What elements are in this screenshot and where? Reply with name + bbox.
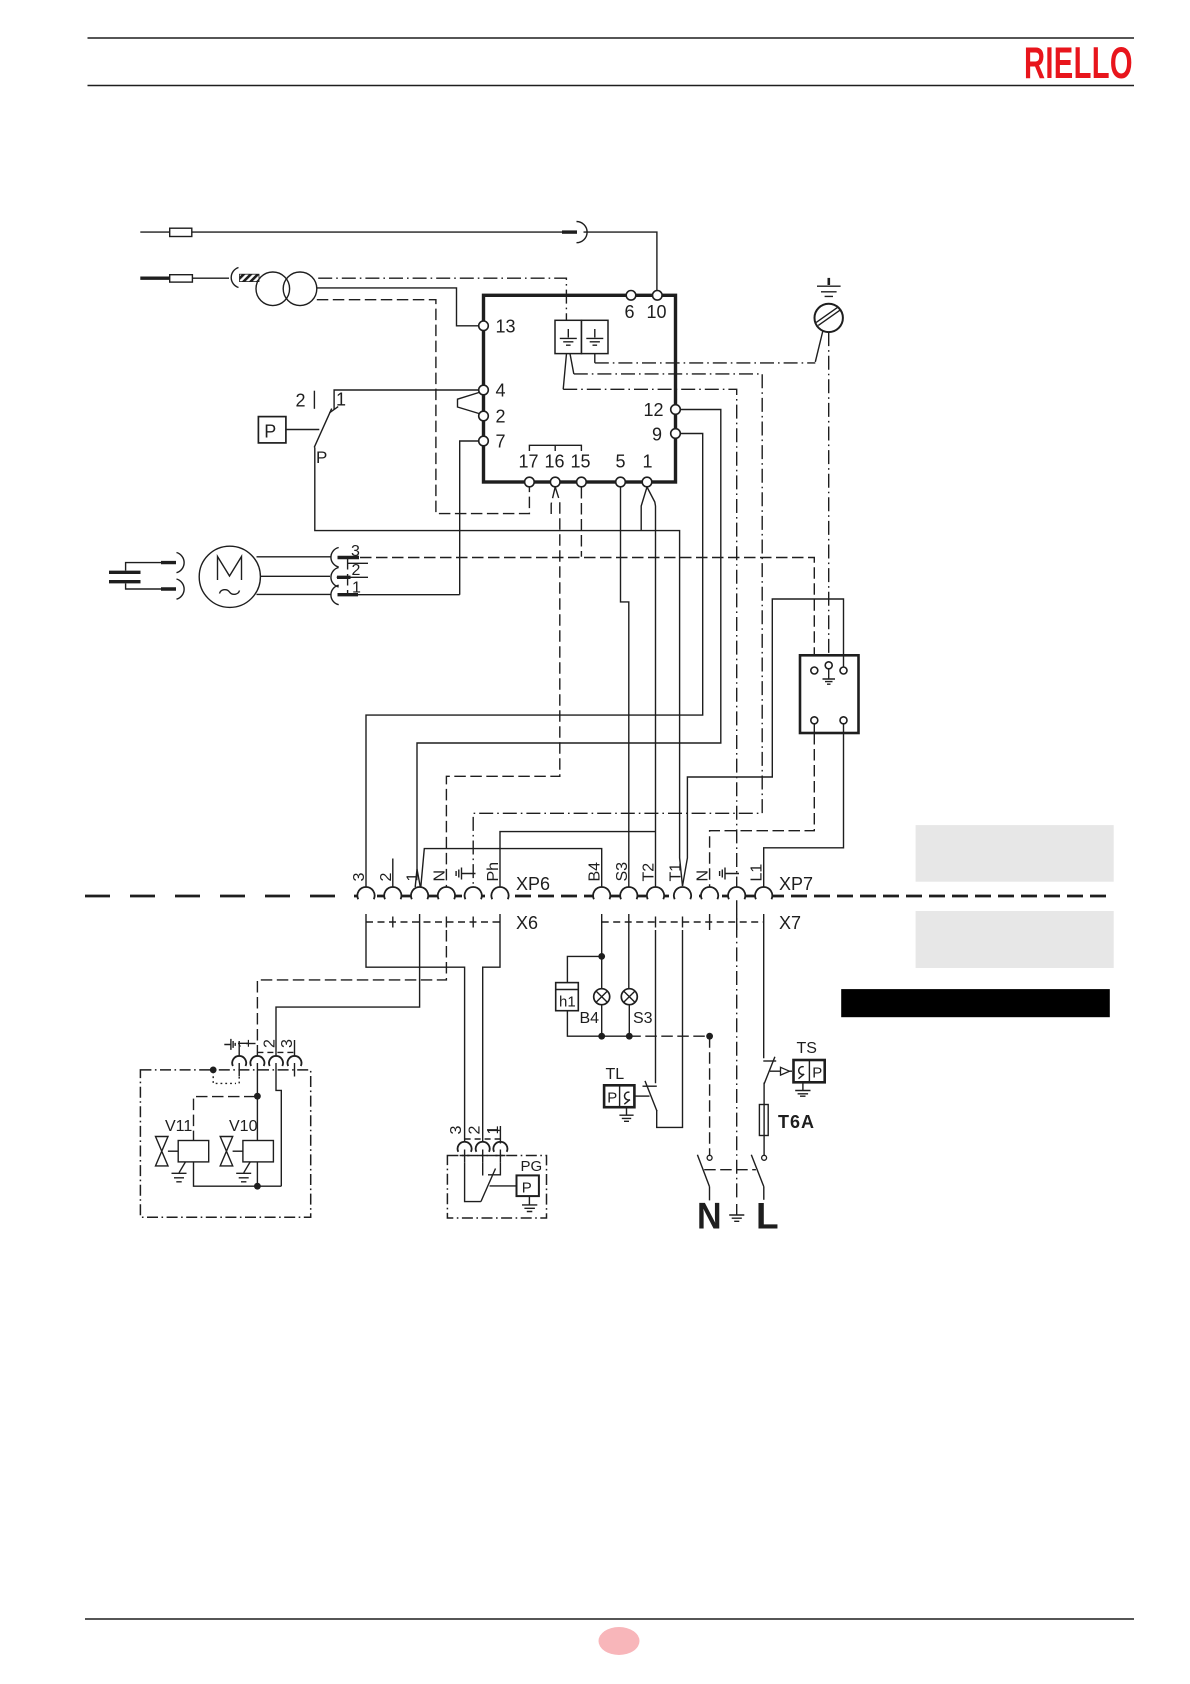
svg-text:9: 9 [652,425,662,445]
svg-text:XP7: XP7 [779,874,813,894]
svg-text:PG: PG [521,1158,543,1175]
svg-text:2: 2 [296,391,306,411]
svg-text:16: 16 [545,452,565,472]
svg-text:TL: TL [606,1066,625,1083]
svg-text:h1: h1 [559,994,576,1011]
svg-text:RIELLO: RIELLO [1024,38,1133,88]
svg-text:2: 2 [496,407,506,427]
svg-text:V11: V11 [165,1118,192,1135]
svg-text:3: 3 [448,1126,465,1135]
svg-text:P: P [522,1180,532,1197]
svg-text:P: P [812,1065,822,1082]
svg-text:15: 15 [571,452,591,472]
svg-text:P: P [316,448,327,467]
svg-text:P: P [264,422,276,442]
svg-text:N: N [431,870,448,882]
svg-text:1: 1 [352,580,361,597]
svg-text:L: L [756,1196,779,1237]
svg-text:3: 3 [279,1039,296,1048]
svg-text:1: 1 [643,452,653,472]
svg-text:1: 1 [405,873,422,882]
svg-text:10: 10 [647,302,667,322]
svg-text:2: 2 [378,873,395,882]
svg-text:4: 4 [496,381,506,401]
svg-text:3: 3 [351,873,368,882]
svg-text:TS: TS [797,1040,817,1057]
svg-text:S3: S3 [633,1010,653,1027]
svg-text:1: 1 [336,390,346,410]
svg-text:X6: X6 [516,913,538,933]
svg-text:7: 7 [496,432,506,452]
svg-text:17: 17 [519,452,539,472]
svg-text:N: N [695,870,712,882]
svg-text:T2: T2 [641,863,658,882]
svg-text:B4: B4 [580,1010,600,1027]
svg-text:2: 2 [352,562,361,579]
svg-text:B4: B4 [587,862,604,882]
svg-text:6: 6 [625,302,635,322]
svg-text:P: P [607,1090,617,1107]
svg-text:2: 2 [466,1126,483,1135]
svg-text:Ph: Ph [485,862,502,882]
svg-text:T1: T1 [668,863,685,882]
svg-text:13: 13 [496,317,516,337]
svg-text:3: 3 [351,543,360,560]
svg-text:XP6: XP6 [516,874,550,894]
svg-text:L1: L1 [749,864,766,882]
svg-text:X7: X7 [779,913,801,933]
svg-text:12: 12 [644,400,664,420]
svg-text:2: 2 [261,1039,278,1048]
svg-text:1: 1 [485,1126,502,1135]
svg-text:V10: V10 [229,1118,258,1135]
svg-text:N: N [697,1195,722,1237]
svg-text:1: 1 [236,1039,253,1048]
svg-text:5: 5 [616,452,626,472]
svg-text:T6A: T6A [778,1112,815,1132]
svg-text:S3: S3 [614,862,631,882]
